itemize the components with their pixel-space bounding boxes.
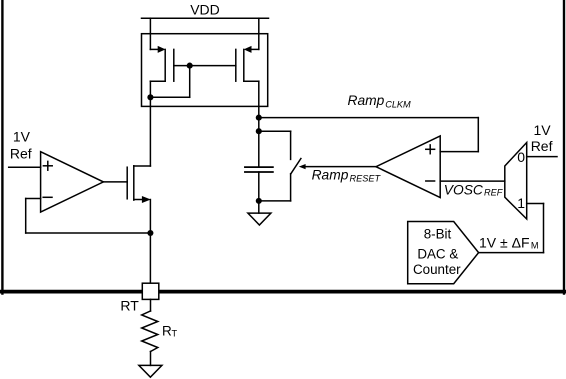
wire switch top branch <box>259 131 291 159</box>
wire capacitor bottom <box>258 172 260 213</box>
transistor Q3 (NMOS) <box>127 166 151 203</box>
wire op-amp + input <box>9 166 41 168</box>
svg-text:REF: REF <box>484 188 504 198</box>
svg-text:Ref: Ref <box>10 146 32 162</box>
junction drain node Q1 <box>147 94 153 100</box>
wire switch bottom branch <box>259 174 291 201</box>
label RT value <box>162 323 178 338</box>
wire mux input 1 <box>527 204 544 253</box>
label RampCLKM <box>348 93 412 109</box>
wire Q2 drain down <box>258 81 260 167</box>
svg-text:1V ± ΔF: 1V ± ΔF <box>479 234 530 250</box>
comparator U2 <box>376 136 440 198</box>
svg-text:RT: RT <box>120 298 139 314</box>
svg-text:Ramp: Ramp <box>312 168 349 183</box>
svg-text:0: 0 <box>517 149 525 165</box>
wire resistor to ground <box>150 352 152 366</box>
transistor Q1 (PMOS left, diode-connected) <box>150 18 173 81</box>
ground (RT resistor) <box>139 365 162 377</box>
wire diode connection <box>150 66 189 98</box>
svg-text:Ref: Ref <box>531 138 553 154</box>
label 1V Ref (right) <box>531 122 553 154</box>
dac block: 8-Bit DAC & Counter <box>408 222 479 284</box>
wire RampCLKM <box>259 118 479 152</box>
svg-text:M: M <box>531 240 539 250</box>
wire Q1 drain to NMOS drain <box>149 81 151 166</box>
label mux input 1 <box>517 195 525 211</box>
IC boundary bottom edge <box>1 290 565 294</box>
svg-text:1: 1 <box>517 195 525 211</box>
current mirror box <box>142 34 268 107</box>
IC boundary left edge <box>1 0 3 294</box>
pin RT (package pin square) <box>142 283 159 299</box>
svg-text:VDD: VDD <box>190 2 220 18</box>
svg-text:1V: 1V <box>534 122 552 138</box>
wire dac output <box>479 252 544 254</box>
svg-text:8-Bit: 8-Bit <box>424 227 452 242</box>
wire VDD rail <box>142 17 269 19</box>
label RT <box>120 298 139 314</box>
IC boundary right edge <box>563 0 565 294</box>
wire op-amp feedback <box>26 199 151 234</box>
junction feedback node <box>147 230 153 236</box>
junction capacitor bottom node <box>256 198 262 204</box>
label RampRESET <box>312 168 382 184</box>
svg-text:R: R <box>162 323 172 338</box>
transistor Q2 (PMOS right) <box>236 18 259 81</box>
junction gate node <box>187 63 193 69</box>
svg-text:VOSC: VOSC <box>444 183 484 198</box>
junction ramp node <box>256 115 262 121</box>
resistor RT <box>142 311 158 352</box>
capacitor C1 <box>245 167 273 172</box>
wire comparator - input to mux output <box>440 180 505 182</box>
svg-text:CLKM: CLKM <box>385 99 411 109</box>
label dac text <box>413 227 461 278</box>
label VOSCREF <box>444 183 504 198</box>
op-amp U1 <box>41 152 104 212</box>
switch S1 (Ramp reset switch) <box>291 159 301 174</box>
wire NMOS source down to RT pin <box>149 200 151 284</box>
junction switch branch node <box>256 128 262 134</box>
wire op-amp output to gate <box>103 181 127 183</box>
svg-text:Counter: Counter <box>413 262 461 277</box>
wire mux input 0 (1V Ref) <box>527 156 557 158</box>
wire RT pin to resistor <box>150 299 152 311</box>
svg-text:RESET: RESET <box>350 173 382 183</box>
net VDD label <box>190 2 220 18</box>
svg-text:DAC &: DAC & <box>417 246 458 261</box>
wire RampRESET with arrow <box>299 164 376 169</box>
ground (capacitor) <box>248 213 271 225</box>
svg-text:1V: 1V <box>13 128 31 144</box>
label 1V Ref (left) <box>10 128 32 161</box>
svg-text:Ramp: Ramp <box>348 93 385 108</box>
mux U3 <box>505 143 527 220</box>
label 1V plus/minus delta FM <box>479 234 539 250</box>
label mux input 0 <box>517 149 525 165</box>
svg-text:T: T <box>172 328 178 338</box>
wire gate net of mirror <box>174 65 236 67</box>
